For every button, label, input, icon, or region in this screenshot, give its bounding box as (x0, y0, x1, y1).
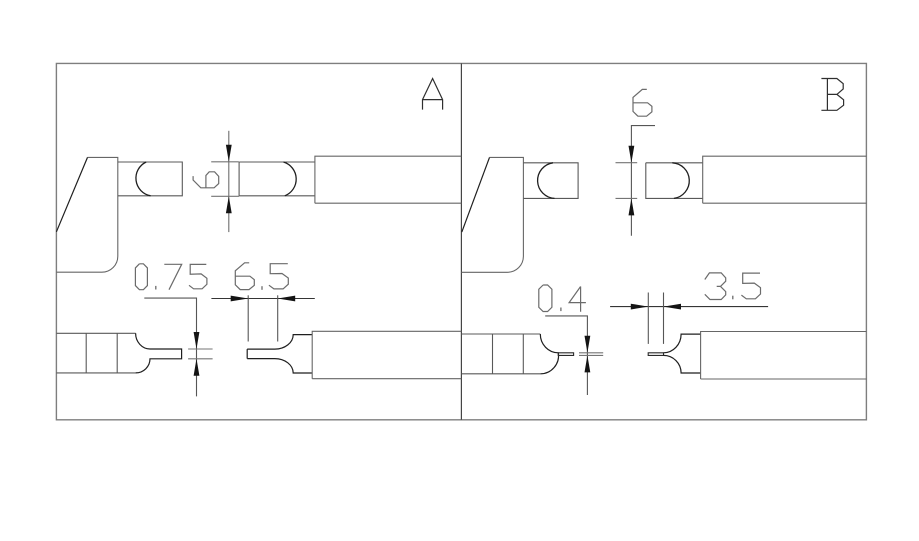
dim text 6 (rotated) A (193, 172, 219, 188)
dim 6 A dimension line (228, 131, 230, 232)
right blade flare B (664, 334, 701, 373)
dim text 0.75 digit 7 (164, 264, 181, 289)
holder division line 2 B (522, 334, 524, 374)
dim text 0.4 dot (560, 308, 562, 312)
dim text 3.5 digit 5 (741, 273, 760, 299)
dim text 0.75 digit 0 (135, 264, 147, 290)
dim 0.75 upper arrow (194, 332, 200, 349)
blade holder block A (56, 333, 135, 373)
dim 6 A lower arrow (226, 196, 232, 213)
dim 3.5 right extension line (663, 293, 665, 344)
dim 3.5 right arrow (664, 304, 682, 310)
spindle face arc A (284, 162, 297, 196)
dim 0.4 leader and dimension line (545, 316, 587, 395)
anvil face arc A (136, 162, 151, 196)
dim text 6.5 digit 6 (235, 263, 254, 290)
dim 0.4 lower arrow (585, 355, 591, 372)
dim 0.75 leader and dimension line (144, 298, 196, 396)
dim 6 A upper arrow (226, 145, 232, 162)
label B (821, 79, 843, 111)
right blade neck tip B (648, 353, 663, 356)
dim 0.4 upper extension tick (579, 352, 603, 354)
dim 6 B upper arrow (629, 146, 635, 163)
dim text 6 B (633, 89, 652, 116)
dim 6 A lower extension tick (211, 195, 239, 197)
dim 0.4 upper arrow (585, 336, 591, 353)
dim 6 B leader and dimension line (631, 126, 655, 236)
dim 6.5 right extension line (277, 295, 279, 341)
dim 6.5 left arrow (231, 296, 249, 302)
spindle tip block A (239, 162, 315, 196)
dim text 3.5 digit 3 (705, 273, 726, 300)
holder division line 1 A (85, 333, 87, 373)
blade holder block B (461, 334, 540, 374)
drawing border frame (56, 63, 866, 419)
holder division line 1 B (492, 334, 494, 374)
left blade flare B (540, 334, 558, 374)
anvil block A (118, 162, 183, 196)
anvil face arc B (538, 163, 555, 199)
left blade neck tip B (558, 353, 573, 356)
dim 6.5 left extension line (247, 295, 249, 341)
dim text 6.5 digit 5 (269, 264, 288, 289)
dim 3.5 left arrow (631, 304, 649, 310)
spindle tip block B (646, 163, 703, 199)
dim 6.5 right arrow (278, 296, 296, 302)
dim 0.75 lower extension tick (188, 358, 213, 360)
dim 6 B lower arrow (629, 198, 635, 215)
dim text 0.4 digit 0 (539, 285, 552, 312)
micrometer frame B outline (461, 157, 523, 272)
spindle face arc B (672, 163, 689, 199)
panel divider line (460, 63, 462, 419)
dim 6 B upper extension tick (616, 162, 638, 164)
dim 0.75 lower arrow (194, 359, 200, 376)
dim 3.5 left extension line (647, 293, 649, 344)
dim 0.4 lower extension tick (579, 354, 603, 356)
spindle body A (315, 156, 462, 203)
right blade profile A (247, 335, 312, 373)
anvil block B (523, 163, 578, 199)
left blade profile A (136, 333, 182, 373)
spindle body bottom view B (701, 332, 867, 380)
dim text 0.75 digit 5 (189, 264, 207, 288)
dim text 6.5 dot (261, 286, 263, 290)
dim 6 B lower extension tick (616, 197, 638, 199)
dim 3.5 dimension line (610, 306, 768, 308)
label A (423, 79, 443, 110)
dim text 0.4 digit 4 (569, 287, 586, 312)
dim 0.75 upper extension tick (188, 348, 213, 350)
micrometer frame A outline (56, 157, 117, 272)
dim text 3.5 dot (732, 296, 734, 300)
spindle body B (703, 156, 867, 203)
micrometer frame A slanted edge (56, 157, 87, 231)
holder division line 2 A (116, 333, 118, 373)
dim 6 A upper extension tick (211, 161, 239, 163)
dim text 0.75 dot (155, 286, 157, 290)
spindle body bottom view A (312, 331, 461, 378)
dim 6.5 dimension line (211, 298, 314, 300)
micrometer frame B slanted edge (462, 157, 490, 232)
